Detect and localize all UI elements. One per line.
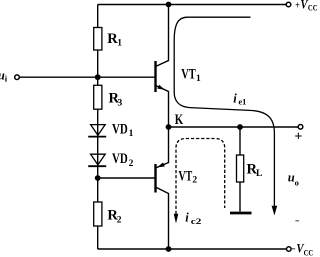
svg-text:VD: VD	[112, 151, 128, 167]
svg-text:1: 1	[196, 74, 201, 84]
svg-text:CC: CC	[308, 2, 318, 12]
svg-text:1: 1	[129, 129, 134, 139]
svg-text:CC: CC	[304, 248, 314, 257]
svg-text:+: +	[295, 0, 300, 11]
svg-text:VT: VT	[179, 168, 193, 184]
svg-text:c2: c2	[191, 216, 202, 226]
svg-text:−: −	[295, 216, 300, 228]
svg-text:i: i	[233, 92, 237, 106]
svg-text:i: i	[185, 211, 189, 225]
svg-text:2: 2	[129, 159, 134, 169]
svg-text:L: L	[256, 169, 262, 179]
svg-text:VD: VD	[112, 121, 128, 137]
svg-text:2: 2	[117, 215, 122, 225]
svg-text:o: o	[295, 178, 299, 188]
svg-text:VT: VT	[181, 67, 196, 83]
svg-text:2: 2	[192, 176, 197, 186]
svg-text:K: K	[175, 112, 184, 128]
svg-text:+: +	[294, 130, 302, 145]
svg-text:3: 3	[118, 98, 123, 108]
svg-text:e1: e1	[238, 97, 246, 107]
svg-text:1: 1	[117, 39, 122, 49]
svg-text:−: −	[291, 244, 295, 256]
